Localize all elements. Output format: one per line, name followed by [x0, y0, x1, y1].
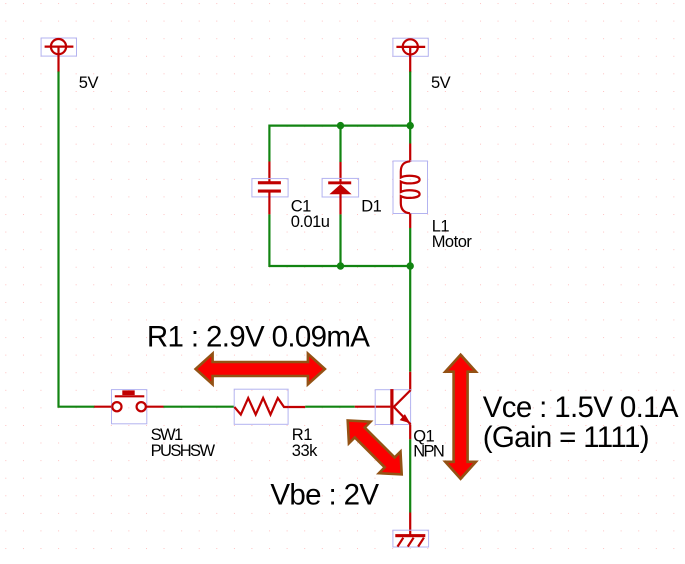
- wire: red D1 bottom stub: [339, 194, 341, 214]
- wire: green run R1 to Q1 base: [305, 406, 355, 408]
- svg-text:D1: D1: [361, 197, 381, 215]
- wire: left vertical green run and corner to switch: [59, 72, 95, 407]
- wire: red C1 bottom stub: [268, 193, 270, 215]
- wire: green C1 bottom: [268, 214, 270, 267]
- wire: bottom rail green: [269, 265, 410, 267]
- svg-text:Vbe : 2V: Vbe : 2V: [270, 478, 379, 511]
- svg-text:0.01u: 0.01u: [291, 213, 330, 231]
- svg-text:(Gain = 1111): (Gain = 1111): [483, 421, 649, 454]
- wire: red L1 top stub: [409, 144, 411, 163]
- resistor R1: [234, 389, 288, 424]
- wire: green collector run: [409, 266, 411, 372]
- wire: green vertical from right 5V to L1: [409, 72, 411, 144]
- wire: red stub right of R1: [288, 406, 305, 408]
- wire: green C1 top: [268, 125, 270, 162]
- junction top rail at L1: [407, 122, 414, 129]
- wire: red base stub into Q1: [355, 406, 391, 408]
- wire: red emitter stub: [409, 425, 411, 440]
- capacitor C1: [252, 179, 288, 197]
- svg-text:Vce : 1.5V 0.1A: Vce : 1.5V 0.1A: [483, 391, 679, 424]
- svg-text:5V: 5V: [79, 74, 99, 92]
- transistor Q1: [375, 389, 410, 424]
- wire: red L1 bottom stub: [409, 214, 411, 229]
- annotation arrow horizontal (R1): [196, 354, 325, 385]
- power symbol 5V left: [41, 38, 76, 56]
- inductor L1: [393, 161, 428, 214]
- annotation arrow diagonal (Vbe): [348, 421, 402, 475]
- junction top rail at D1: [337, 122, 344, 129]
- wire: green run SW1 to R1: [164, 406, 235, 408]
- svg-text:33k: 33k: [292, 442, 318, 460]
- power symbol 5V right: [393, 38, 428, 56]
- annotation arrow vertical (Vce): [445, 355, 476, 479]
- wire: red stub below left 5V: [57, 47, 59, 73]
- wire: green emitter run to ground: [409, 439, 411, 512]
- wire: red D1 top stub: [339, 162, 341, 184]
- wire: green D1 bottom: [339, 214, 341, 267]
- svg-text:NPN: NPN: [413, 442, 444, 460]
- wire: red stub below right 5V: [409, 47, 411, 72]
- svg-text:R1 : 2.9V 0.09mA: R1 : 2.9V 0.09mA: [147, 321, 370, 354]
- svg-text:5V: 5V: [431, 74, 451, 92]
- wire: red stub right of SW1: [146, 406, 164, 408]
- wire: red ground stub: [409, 513, 411, 536]
- wire: top rail green: [269, 124, 410, 126]
- switch SW1: [112, 390, 147, 424]
- svg-text:PUSHSW: PUSHSW: [151, 442, 216, 460]
- wire: red collector stub: [409, 372, 411, 391]
- ground: [393, 530, 429, 547]
- wire: green L1 bottom: [409, 228, 411, 267]
- diode D1: [322, 178, 359, 197]
- junction bottom rail at D1: [337, 262, 344, 269]
- svg-text:Motor: Motor: [432, 233, 473, 251]
- junction bottom rail at L1: [407, 262, 414, 269]
- wire: red C1 top stub: [268, 162, 270, 182]
- wire: red stub into SW1 left: [94, 406, 112, 408]
- wire: green D1 top: [339, 126, 341, 162]
